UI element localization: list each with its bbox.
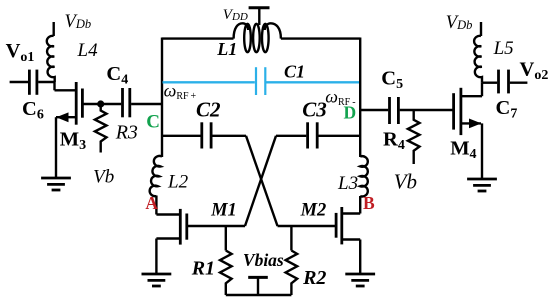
wire top right [281,37,360,39]
svg-text:R1: R1 [191,258,215,280]
resistor R2 [286,226,298,295]
svg-text:M2: M2 [300,201,327,221]
svg-text:L3: L3 [337,173,358,194]
capacitor C3 [276,122,360,148]
wire R1-R2 bottom [226,294,292,296]
ground under M4 [467,179,497,191]
svg-text:C: C [146,111,160,132]
svg-text:Vb: Vb [93,167,114,188]
svg-text:C2: C2 [196,98,221,122]
transistor M2 [278,207,361,244]
svg-text:M1: M1 [210,201,237,221]
wire left rail [161,38,163,158]
svg-text:C4: C4 [106,63,128,88]
transistor M3 [55,82,83,125]
ground under M2 [345,274,375,286]
svg-text:VDb: VDb [65,12,92,32]
svg-text:C1: C1 [284,62,305,82]
resistor R4 [408,110,420,164]
ground under M1 [142,274,172,286]
node A wire [155,196,157,215]
inductor L4 [47,36,55,82]
svg-text:C6: C6 [22,98,44,123]
supply VDb left [53,22,55,36]
svg-text:B: B [363,193,375,213]
svg-text:R3: R3 [115,121,138,143]
svg-text:D: D [344,103,357,123]
inductor L2 [150,156,162,196]
svg-text:Vo1: Vo1 [6,40,35,65]
capacitor C2 [162,122,246,148]
node C wire (M3 gate - C4 - rail) [84,103,122,105]
wire cross-couple C2 to M2 gate [246,136,278,226]
wire top left [162,37,234,39]
svg-text:L2: L2 [167,171,189,192]
wire right rail [359,38,361,158]
wire M3 source to ground [55,117,57,178]
wire M1 source to ground [155,239,157,275]
inductor L5 [474,36,482,83]
svg-text:R2: R2 [302,267,326,289]
capacitor C4 [123,88,163,117]
svg-text:Vb: Vb [394,170,417,194]
transistor M1 [156,209,245,245]
ground under M3 [41,178,71,190]
svg-text:Vo2: Vo2 [520,58,549,83]
resistor R3 [95,104,107,153]
capacitor C5 [390,97,454,124]
svg-text:A: A [145,193,158,213]
capacitor C1 [163,67,360,95]
svg-text:Vbias: Vbias [243,250,284,270]
Vbias terminal [248,277,268,295]
svg-text:R4: R4 [383,129,405,154]
svg-text:C3: C3 [302,98,327,122]
svg-text:VDD: VDD [223,7,248,23]
wire M2 source to ground [359,240,361,275]
svg-text:M3: M3 [60,128,86,153]
inductor L1 [234,23,281,52]
resistor R1 [220,226,232,295]
capacitor C6 [10,70,55,95]
node D wire (rail - C5 - R4 - M4 gate) [360,109,388,111]
svg-text:ωRF +: ωRF + [164,80,197,102]
svg-text:L4: L4 [77,40,99,61]
wire M4 source to ground [481,123,483,179]
capacitor C7 [482,70,527,94]
junction dot [97,100,104,107]
svg-text:C5: C5 [381,68,403,93]
inductor L3 [360,156,368,196]
svg-text:L1: L1 [216,39,237,59]
node B wire [359,196,361,214]
svg-text:M4: M4 [450,137,476,162]
svg-text:L5: L5 [493,38,514,59]
supply VDD symbol [249,8,270,25]
wire cross-couple C3 to M1 gate [245,136,276,226]
supply VDb right [480,22,482,36]
svg-text:VDb: VDb [446,13,473,33]
svg-text:C7: C7 [496,97,518,122]
transistor M4 [454,83,482,135]
